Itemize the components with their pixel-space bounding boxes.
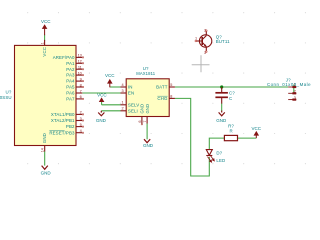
svg-text:14: 14 bbox=[40, 148, 44, 152]
svg-text:PA2: PA2 bbox=[66, 67, 75, 72]
svg-text:VCC: VCC bbox=[42, 47, 47, 57]
svg-text:PA5: PA5 bbox=[66, 85, 75, 90]
svg-text:4: 4 bbox=[121, 83, 123, 87]
svg-text:6: 6 bbox=[80, 95, 82, 99]
svg-text:8: 8 bbox=[170, 94, 172, 98]
svg-text:GND: GND bbox=[145, 104, 150, 114]
svg-text:6: 6 bbox=[138, 120, 142, 122]
svg-text:BATT: BATT bbox=[156, 85, 168, 90]
svg-text:VCC: VCC bbox=[105, 73, 115, 78]
svg-text:3: 3 bbox=[121, 89, 123, 93]
svg-text:C: C bbox=[229, 96, 232, 101]
svg-text:3: 3 bbox=[294, 96, 296, 100]
svg-text:R: R bbox=[230, 129, 233, 134]
svg-text:9: 9 bbox=[80, 77, 82, 81]
svg-text:10: 10 bbox=[78, 71, 82, 75]
svg-text:IN: IN bbox=[128, 85, 133, 90]
svg-text:MAX1811: MAX1811 bbox=[136, 71, 155, 76]
svg-text:C?: C? bbox=[229, 90, 235, 95]
svg-text:SELV: SELV bbox=[128, 102, 139, 107]
svg-text:GND: GND bbox=[42, 133, 47, 143]
svg-text:PA6: PA6 bbox=[66, 91, 75, 96]
svg-text:5: 5 bbox=[170, 83, 172, 87]
svg-text:2: 2 bbox=[204, 28, 206, 32]
svg-text:BUT11: BUT11 bbox=[216, 39, 230, 44]
svg-text:XTAL1/PB0: XTAL1/PB0 bbox=[51, 112, 75, 117]
svg-text:2: 2 bbox=[294, 90, 296, 94]
svg-text:PA1: PA1 bbox=[66, 61, 75, 66]
svg-text:7: 7 bbox=[80, 89, 82, 93]
svg-text:2: 2 bbox=[80, 111, 82, 115]
svg-text:VCC: VCC bbox=[41, 19, 51, 24]
svg-text:3: 3 bbox=[204, 51, 206, 55]
svg-text:ATtiny84-20SSU: ATtiny84-20SSU bbox=[0, 95, 12, 100]
svg-text:1: 1 bbox=[195, 37, 197, 41]
svg-text:PB2: PB2 bbox=[66, 124, 75, 129]
svg-text:Conn_01x03_Male: Conn_01x03_Male bbox=[267, 82, 311, 87]
svg-text:12: 12 bbox=[78, 60, 82, 64]
svg-text:XTAL2/PB1: XTAL2/PB1 bbox=[51, 118, 75, 123]
svg-text:13: 13 bbox=[78, 54, 82, 58]
svg-text:SELI: SELI bbox=[128, 108, 138, 113]
svg-text:RESET/PB3: RESET/PB3 bbox=[49, 130, 75, 135]
svg-text:8: 8 bbox=[80, 83, 82, 87]
svg-text:U?: U? bbox=[6, 89, 12, 94]
svg-text:2: 2 bbox=[121, 107, 123, 111]
svg-text:11: 11 bbox=[78, 66, 82, 70]
svg-text:4: 4 bbox=[80, 129, 82, 133]
svg-text:GND: GND bbox=[216, 118, 227, 123]
svg-text:D?: D? bbox=[216, 151, 222, 156]
svg-text:GND: GND bbox=[41, 170, 52, 175]
svg-text:5: 5 bbox=[80, 123, 82, 127]
svg-text:VCC: VCC bbox=[252, 126, 262, 131]
svg-text:LED: LED bbox=[216, 158, 225, 163]
svg-text:3: 3 bbox=[80, 117, 82, 121]
svg-text:VCC: VCC bbox=[97, 92, 107, 97]
svg-text:7: 7 bbox=[143, 120, 147, 122]
svg-text:AREF/PA0: AREF/PA0 bbox=[53, 55, 75, 60]
svg-text:GND: GND bbox=[96, 118, 107, 123]
svg-text:GND: GND bbox=[143, 143, 154, 148]
svg-text:1: 1 bbox=[40, 42, 44, 44]
svg-text:PA4: PA4 bbox=[66, 79, 75, 84]
svg-text:1: 1 bbox=[121, 101, 123, 105]
svg-text:CHG: CHG bbox=[157, 96, 168, 101]
svg-text:EN: EN bbox=[128, 91, 134, 96]
svg-text:PA7: PA7 bbox=[66, 96, 75, 101]
svg-text:PA3: PA3 bbox=[66, 73, 75, 78]
